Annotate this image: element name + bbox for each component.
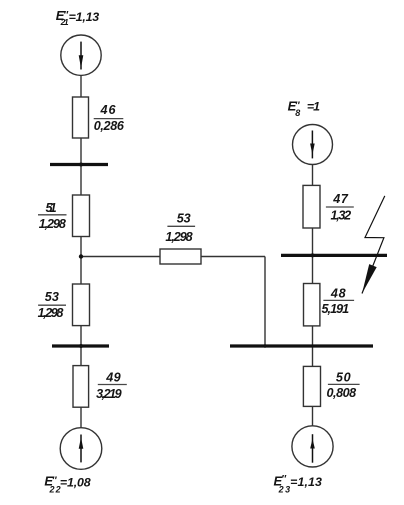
svg-text:0,808: 0,808 (327, 386, 357, 400)
svg-text:21: 21 (60, 17, 69, 27)
svg-text:1,298: 1,298 (39, 217, 66, 231)
svg-text:=1,13: =1,13 (290, 475, 322, 489)
svg-text:=1,08: =1,08 (60, 475, 91, 489)
svg-text:3,219: 3,219 (96, 387, 122, 401)
svg-text:46: 46 (100, 103, 117, 117)
svg-text:=1,13: =1,13 (69, 10, 100, 24)
svg-text:1,32: 1,32 (331, 208, 352, 222)
svg-text:47: 47 (332, 192, 349, 206)
svg-text:53: 53 (45, 290, 59, 304)
svg-text:5,191: 5,191 (322, 302, 350, 316)
svg-text:1,298: 1,298 (38, 306, 64, 320)
svg-text:0,286: 0,286 (94, 119, 125, 133)
svg-text:51: 51 (46, 201, 57, 215)
svg-text:49: 49 (105, 371, 120, 385)
svg-text:50: 50 (336, 370, 351, 384)
svg-text:48: 48 (330, 286, 346, 300)
svg-text:8: 8 (295, 108, 300, 118)
svg-text:1: 1 (313, 100, 320, 114)
svg-text:53: 53 (177, 211, 191, 225)
svg-text:1,298: 1,298 (165, 230, 192, 244)
